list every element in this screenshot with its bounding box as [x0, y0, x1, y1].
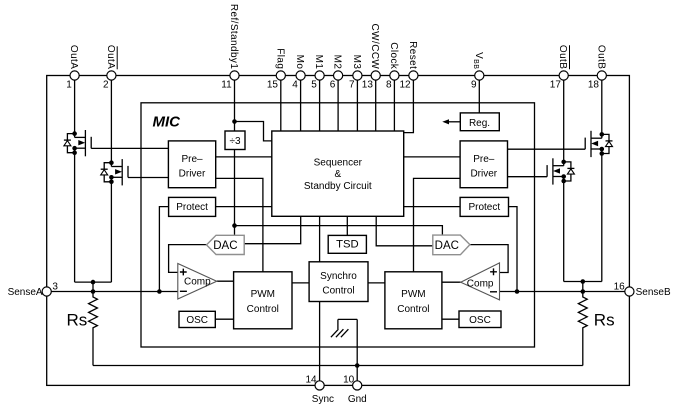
resistor R-senseA zigzag — [89, 292, 98, 366]
junction Q4 diode anode — [561, 179, 566, 184]
IC internal block (MIC) box — [141, 103, 535, 347]
wire branch ref to DAC2 top — [235, 226, 443, 236]
wire pin6 M2 to Sequencer top — [337, 80, 339, 131]
svg-text:Synchro: Synchro — [320, 271, 357, 282]
svg-text:5: 5 — [311, 80, 317, 91]
transistor Q2 diode cathode bar — [101, 168, 108, 170]
wire Synchro Control to PWM2 — [368, 282, 385, 284]
svg-text:14: 14 — [305, 375, 317, 386]
wire Pre-Driver2 to PWM2 top — [414, 178, 461, 271]
svg-text:Mo: Mo — [294, 55, 305, 70]
pin 10 terminal circle — [353, 381, 362, 390]
transistor Q4 body diode loop — [564, 162, 571, 181]
transistor Q4 source stub — [553, 176, 564, 178]
wire pin8 Clock to Sequencer top — [393, 80, 395, 131]
transistor Q1 channel bar — [84, 130, 86, 156]
wire Sequencer bottom to Synchro top — [319, 216, 321, 261]
svg-text:OutA: OutA — [68, 45, 79, 69]
junction Q1 source — [72, 146, 77, 151]
wire pin15 Flag to Sequencer top — [280, 80, 282, 131]
wire pin18 OutB to Q3 drain — [601, 80, 603, 138]
MOSFETS — [64, 130, 613, 185]
pin 11 terminal circle — [230, 71, 239, 80]
wire A-bridge junction to SenseA line — [92, 282, 94, 291]
svg-text:4: 4 — [292, 80, 298, 91]
svg-text:Control: Control — [247, 304, 279, 315]
pin 2 terminal circle — [107, 71, 116, 80]
wire SenseB net to Comp2 inverting input — [500, 291, 625, 293]
transistor Q4 gate bar — [546, 165, 548, 177]
wire OSC2 to PWM2 — [442, 318, 459, 320]
svg-text:13: 13 — [362, 80, 374, 91]
svg-text:Flag: Flag — [274, 48, 285, 69]
pin 9 terminal circle — [475, 71, 484, 80]
wire Pre-Driver1 to Sequencer left — [216, 156, 272, 158]
svg-text:15: 15 — [267, 80, 279, 91]
transistor Q1 body diode loop — [67, 134, 74, 153]
transistor Q3 gate bar — [584, 138, 586, 150]
svg-text:OutB: OutB — [595, 45, 606, 69]
Comp2 minus symbol — [490, 291, 497, 293]
pin 14 terminal circle — [315, 381, 324, 390]
wire pin7 M3 to Sequencer top — [356, 80, 358, 131]
pin 17 terminal circle — [559, 71, 568, 80]
svg-text:CW/CCW: CW/CCW — [369, 24, 380, 70]
wire Q4 source down to B-bridge junction — [563, 177, 565, 282]
wire Sync pin14 to Synchro Control bottom — [319, 302, 321, 381]
svg-text:Sync: Sync — [312, 394, 334, 405]
svg-text:Sequencer: Sequencer — [314, 157, 363, 168]
transistor Q2 gate bar — [127, 166, 129, 178]
wire SenseA net to Comp1 inverting input — [51, 291, 178, 293]
svg-text:Protect: Protect — [468, 202, 500, 213]
transistor Q4 channel bar — [552, 158, 554, 184]
op-amp U-SEQ Sequencer and Standby Circuit box — [272, 131, 404, 216]
svg-text:M3: M3 — [351, 55, 362, 70]
transistor Q1 diode triangle — [64, 141, 71, 146]
Comp1 plus symbol — [180, 269, 187, 276]
DAC1 pentagon — [207, 235, 245, 254]
svg-text:Control: Control — [322, 286, 354, 297]
svg-text:6: 6 — [330, 80, 336, 91]
ground symbol stub — [337, 319, 339, 329]
junction Q3 diode anode — [600, 151, 605, 156]
Comp2 plus symbol — [490, 268, 497, 275]
wire Sequencer bottom to DAC2 input — [376, 216, 433, 246]
transistor Q2 source arrow — [115, 169, 122, 174]
TSD box — [328, 235, 366, 253]
Protect1 box — [169, 197, 216, 216]
op-amp Comp2 triangle — [461, 263, 500, 300]
wire divider output down to DAC1 top — [234, 150, 236, 236]
wire DAC2 output to Comp2 plus input — [470, 245, 508, 273]
transistor Q1 drain stub — [75, 136, 86, 138]
DAC2 pentagon — [433, 235, 470, 255]
transistor Q3 diode triangle — [606, 141, 613, 146]
ground symbol slash 3 — [341, 329, 349, 337]
wire Sequencer right to Pre-Driver2 — [404, 156, 460, 158]
pin 7 terminal circle — [353, 71, 362, 80]
svg-text:2: 2 — [103, 80, 109, 91]
svg-text:M1: M1 — [313, 55, 324, 70]
svg-text:8: 8 — [386, 80, 392, 91]
wire pin13 CW/CCW to Sequencer top — [375, 80, 377, 131]
ground symbol slash 1 — [331, 329, 339, 337]
svg-text:Comp: Comp — [184, 277, 211, 288]
wire Q2 gate to Pre-Driver1 — [128, 177, 168, 179]
OSC2 box — [459, 311, 501, 328]
transistor Q4 source arrow — [553, 168, 560, 173]
Comp1 minus symbol — [180, 290, 187, 292]
svg-text:3: 3 — [52, 281, 58, 292]
transistor Q2 body diode loop — [104, 163, 111, 182]
junction SenseA Protect1 node — [157, 289, 162, 294]
svg-text:1: 1 — [66, 80, 72, 91]
regulator U-REG box — [460, 113, 499, 131]
wire pin9 VBB to Reg top — [478, 80, 480, 113]
svg-text:10: 10 — [343, 375, 355, 386]
wire Pre-Driver1 to PWM1 top — [216, 178, 263, 271]
pin 1 terminal circle — [70, 71, 79, 80]
junction Q4 source — [561, 174, 566, 179]
junction node ref branch — [232, 119, 237, 124]
ground symbol slash 2 — [336, 329, 344, 337]
svg-text:Driver: Driver — [179, 169, 206, 180]
transistor Q4 diode triangle — [567, 169, 574, 174]
PWM Control2 box — [385, 272, 442, 329]
svg-text:18: 18 — [588, 80, 600, 91]
wire DAC1 output to Comp1 plus input — [169, 245, 207, 273]
svg-text:M2: M2 — [332, 55, 343, 70]
wire Comp1 output to PWM1 — [217, 280, 234, 282]
wire Q2 source down to A-bridge junction — [110, 177, 112, 282]
svg-text:9: 9 — [471, 80, 477, 91]
wire pin4 Mo to Sequencer top — [300, 80, 302, 131]
wire pin5 M1 to Sequencer top — [319, 80, 321, 131]
svg-text:Comp: Comp — [467, 279, 494, 290]
junction Q1 drain — [72, 131, 77, 136]
op-amp Comp1 triangle — [178, 264, 217, 300]
junction A-bridge mid — [91, 280, 96, 285]
junction B-bridge mid — [581, 279, 586, 284]
svg-text:Standby Circuit: Standby Circuit — [304, 181, 372, 192]
svg-text:16: 16 — [614, 281, 626, 292]
svg-text:Protect: Protect — [176, 202, 208, 213]
svg-text:DAC: DAC — [435, 240, 459, 252]
svg-text:Clock: Clock — [388, 42, 399, 70]
svg-text:Pre–: Pre– — [181, 154, 203, 165]
junction Q3 source — [600, 147, 605, 152]
junction Q2 diode anode — [109, 180, 114, 185]
svg-text:12: 12 — [399, 80, 411, 91]
svg-text:11: 11 — [221, 80, 232, 91]
wire Protect2 to sense node — [509, 207, 518, 292]
transistor Q3 channel bar — [590, 131, 592, 157]
pin 3 SenseA terminal circle — [42, 287, 51, 296]
svg-text:Reset: Reset — [407, 41, 418, 69]
wire pin17 OutB-bar to Q4 drain — [563, 80, 565, 166]
pin 18 terminal circle — [597, 71, 606, 80]
wire Protect1 to sense node — [159, 207, 168, 292]
transistor Q2 source stub — [111, 176, 122, 178]
overline bar for pin17 OutB-bar — [569, 45, 571, 69]
transistor Q1 gate bar — [90, 137, 92, 149]
svg-text:Control: Control — [397, 304, 429, 315]
svg-text:&: & — [334, 169, 341, 180]
transistor Q3 body diode loop — [602, 134, 609, 153]
wire pin2 OutA-bar to Q2 drain — [110, 80, 112, 166]
wire Sequencer bottom to DAC1 input — [244, 216, 301, 243]
overline bar for pin2 OutA-bar — [116, 46, 118, 69]
svg-text:OSC: OSC — [186, 315, 208, 326]
svg-text:7: 7 — [349, 80, 355, 91]
junction SenseB Rs node — [581, 289, 586, 294]
wire OSC1 to PWM1 — [215, 318, 233, 320]
svg-text:OutB: OutB — [557, 45, 568, 69]
Reg output arrowhead — [442, 119, 449, 124]
Pre-Driver1 box — [168, 141, 215, 188]
svg-text:TSD: TSD — [336, 239, 359, 251]
junction Q1 diode anode — [72, 150, 77, 155]
transistor Q4 diode cathode bar — [567, 167, 574, 169]
pin 8 terminal circle — [390, 71, 399, 80]
wire B-bridge junction to SenseB line — [582, 282, 584, 292]
transistor Q3 source stub — [591, 148, 602, 150]
transistor Q1 diode cathode bar — [64, 139, 71, 141]
svg-text:Gnd: Gnd — [348, 394, 367, 405]
divider U-DIV div-3 box — [225, 131, 245, 150]
svg-text:Ref/Standby1: Ref/Standby1 — [228, 4, 239, 69]
transistor Q1 source arrow — [78, 140, 85, 145]
svg-text:MIC: MIC — [153, 114, 182, 131]
OSC1 box — [179, 311, 215, 327]
junction Q4 drain — [561, 160, 566, 165]
junction Gnd rail node — [355, 363, 360, 368]
wire pin11 Ref/Standby1 down to divider — [234, 80, 236, 131]
svg-text:Driver: Driver — [470, 169, 497, 180]
wire pin1 OutA to Q1 drain — [74, 80, 76, 137]
pin 16 SenseB terminal circle — [625, 287, 634, 296]
wire PWM1 to Synchro Control — [292, 282, 309, 284]
svg-text:17: 17 — [550, 80, 562, 91]
pin 15 terminal circle — [276, 71, 285, 80]
svg-text:SenseA: SenseA — [8, 287, 43, 298]
wire Reg output arrow line — [446, 121, 461, 123]
transistor Q2 channel bar — [121, 159, 123, 185]
wire Q1 gate to Pre-Driver1 — [91, 147, 168, 149]
wire B-bridge source bar — [564, 281, 602, 283]
transistor Q3 diode cathode bar — [606, 140, 613, 142]
junction SenseB Protect2 node — [515, 289, 520, 294]
wire Q3 source down to B-bridge junction — [601, 149, 603, 282]
wire bottom sense-resistor common rail — [93, 365, 583, 367]
svg-text:Rs: Rs — [67, 311, 88, 330]
transistor Q3 drain stub — [591, 137, 602, 139]
junction node DAC ref — [232, 223, 237, 228]
wire Gnd net pin10 riser — [356, 319, 358, 380]
wire A-bridge source bar — [75, 281, 112, 283]
wire Q4 gate to Pre-Driver2 — [508, 176, 548, 178]
svg-text:DAC: DAC — [213, 240, 237, 252]
PWM Control1 box — [234, 272, 292, 329]
transistor Q2 drain stub — [111, 166, 122, 168]
wire Q3 gate to Pre-Driver2 — [508, 148, 586, 150]
pin 12 terminal circle — [409, 71, 418, 80]
wire ground stub horizontal — [338, 318, 357, 320]
svg-text:PWM: PWM — [251, 289, 275, 300]
pin 13 terminal circle — [371, 71, 380, 80]
pin 6 terminal circle — [334, 71, 343, 80]
wire Comp2 output to PWM2 — [442, 281, 461, 283]
junction Q3 drain — [600, 132, 605, 137]
svg-text:Pre–: Pre– — [473, 154, 495, 165]
outer package boundary box — [47, 76, 630, 386]
transistor Q2 diode triangle — [101, 170, 108, 175]
wire Sequencer right to Protect2 — [404, 206, 460, 208]
svg-text:÷3: ÷3 — [229, 136, 240, 147]
svg-text:OutA: OutA — [105, 45, 116, 69]
transistor Q3 source arrow — [591, 141, 598, 146]
pin 4 terminal circle — [296, 71, 305, 80]
svg-text:PWM: PWM — [401, 289, 425, 300]
junction Q2 drain — [109, 160, 114, 165]
svg-text:OSC: OSC — [469, 315, 491, 326]
wire Protect1 to Sequencer left — [216, 206, 272, 208]
Protect2 box — [460, 197, 508, 216]
svg-text:SenseB: SenseB — [636, 287, 671, 298]
resistor R-senseB zigzag — [578, 292, 587, 366]
wire Sequencer bottom to TSD top — [346, 216, 348, 235]
svg-text:Rs: Rs — [594, 311, 615, 330]
transistor Q1 source stub — [75, 147, 86, 149]
svg-text:Reg.: Reg. — [469, 118, 490, 129]
wire Q1 source down to A-bridge junction — [74, 148, 76, 282]
junction Q2 source — [109, 175, 114, 180]
Pre-Driver2 box — [460, 141, 507, 188]
wire branch node A to Sequencer left — [235, 122, 272, 141]
pin 5 terminal circle — [315, 71, 324, 80]
Synchro Control box — [309, 262, 368, 302]
wire pin12 Reset to Sequencer right edge — [404, 80, 414, 133]
transistor Q4 drain stub — [553, 165, 564, 167]
junction SenseA Rs node — [91, 289, 96, 294]
